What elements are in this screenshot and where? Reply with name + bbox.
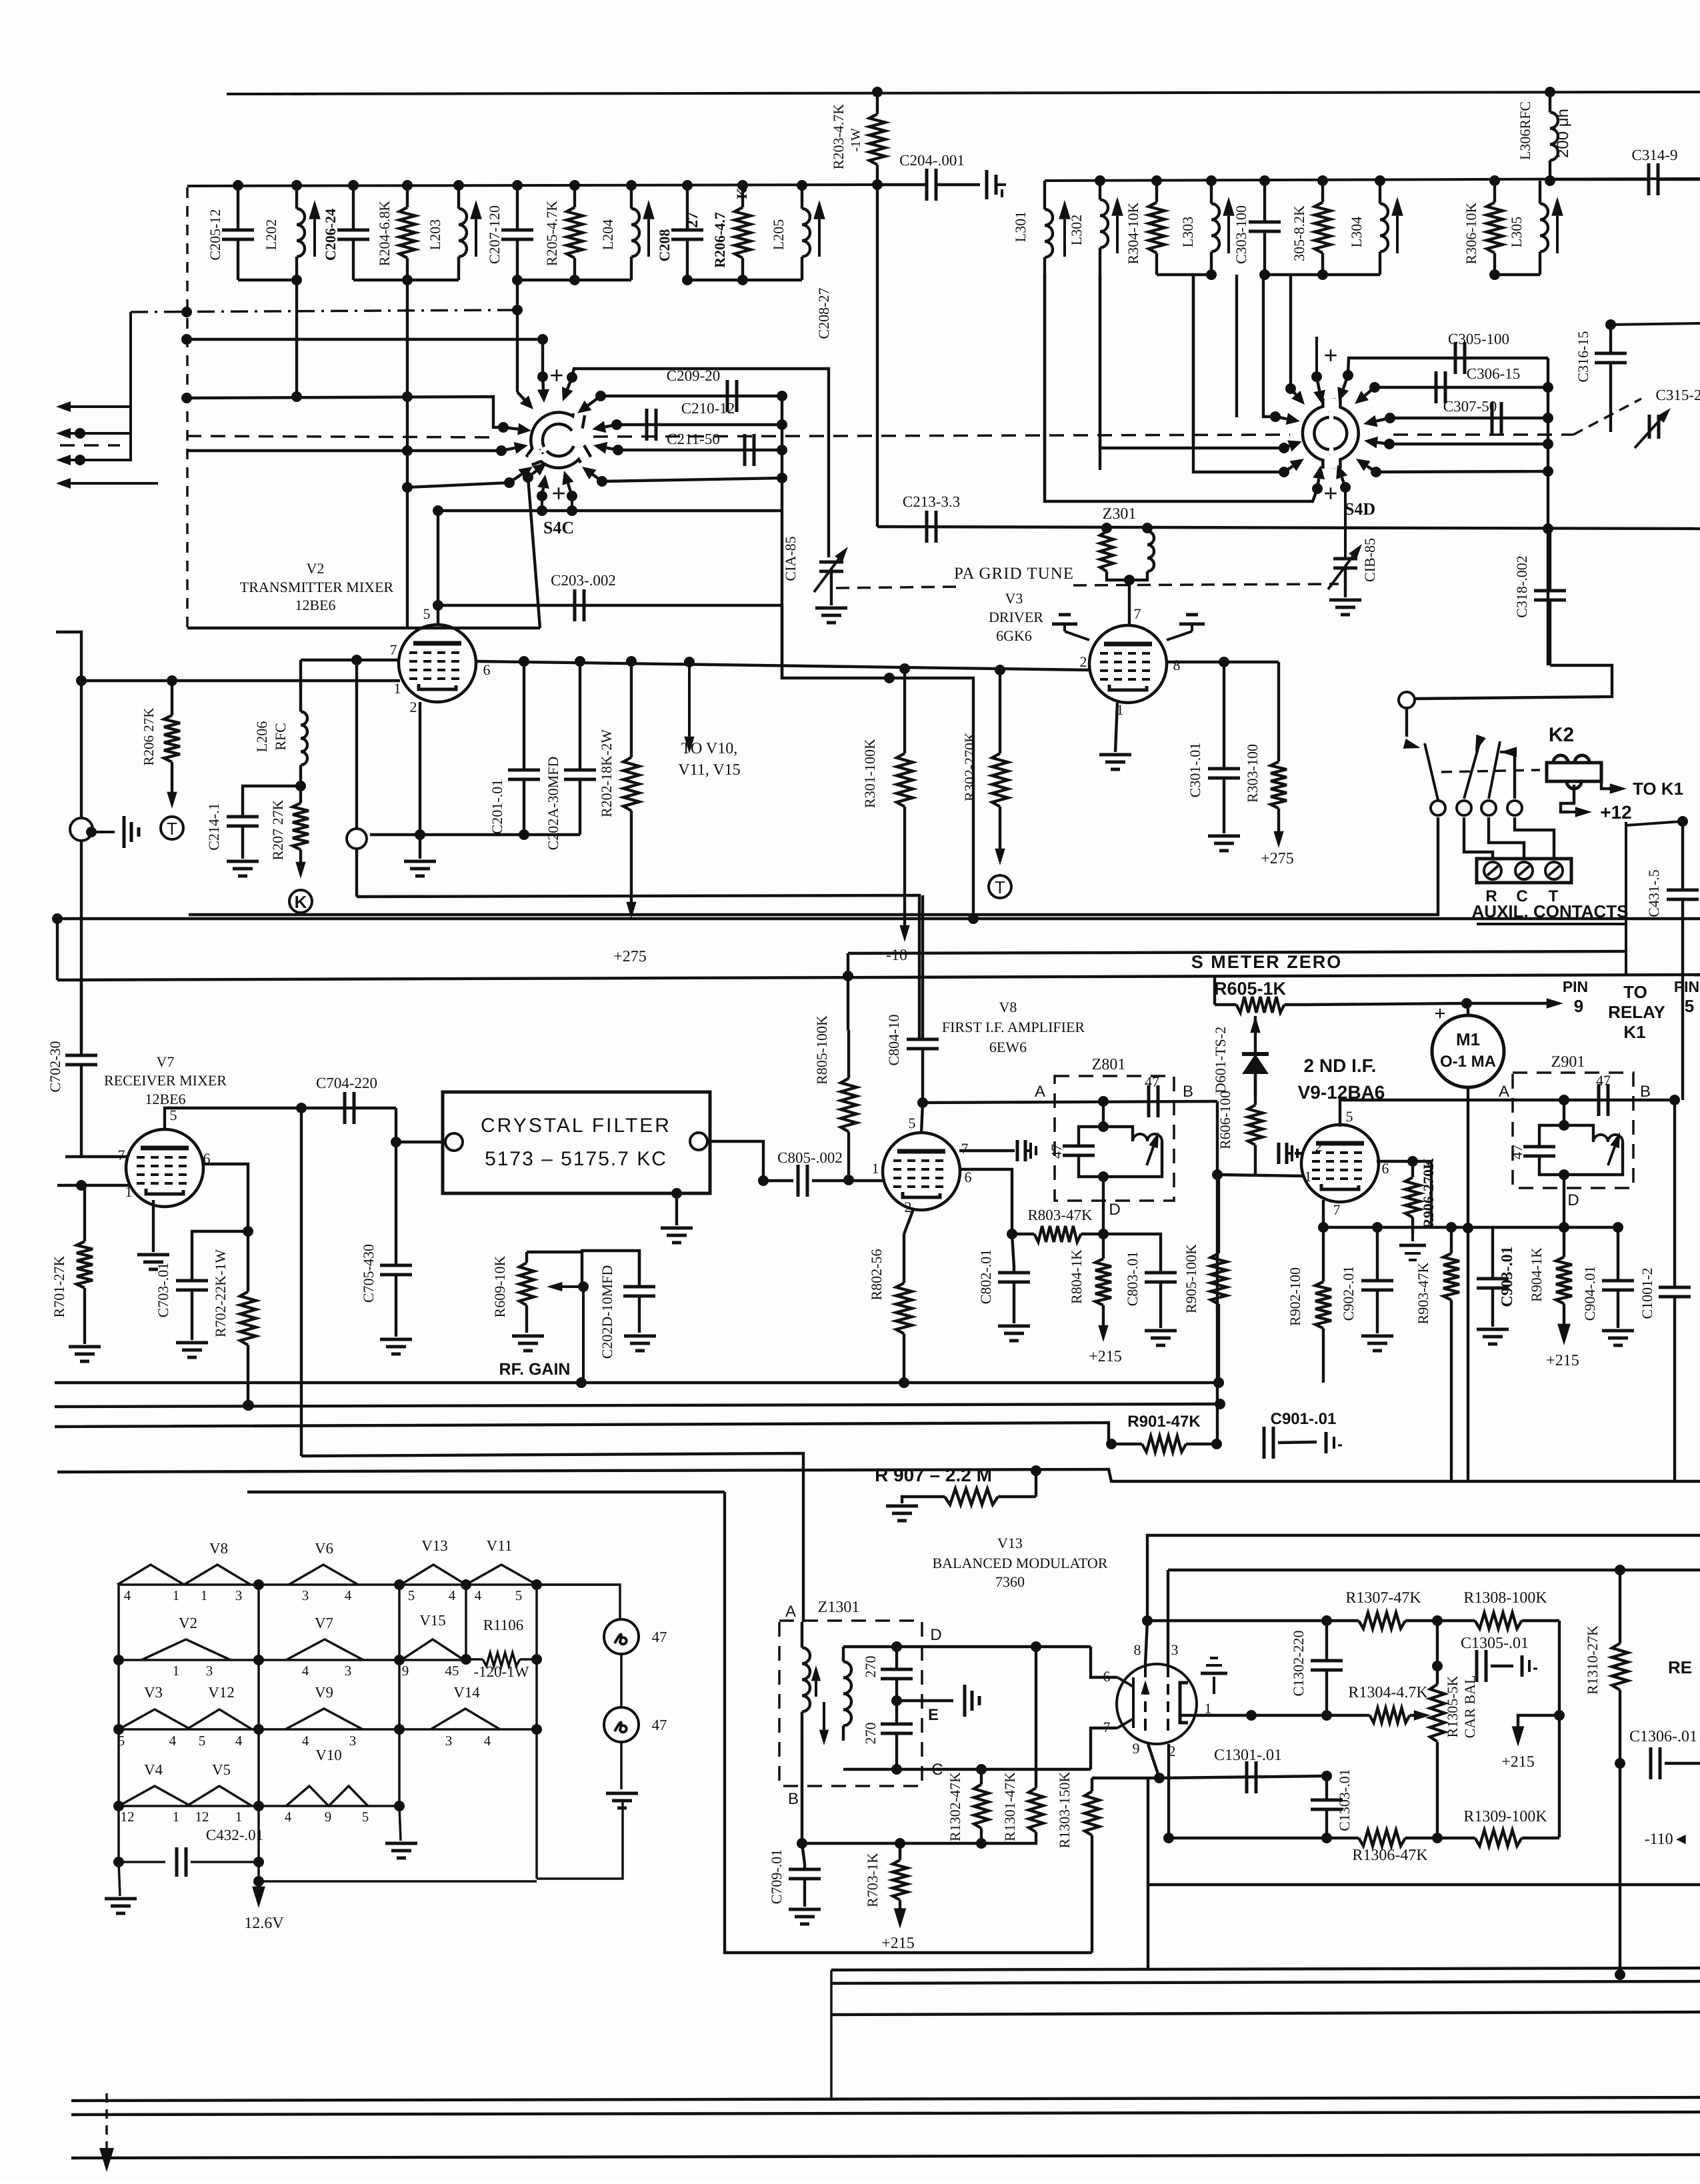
wire Z1301 secondary top [843,1645,1091,1648]
wire C203 to V3 grid [782,605,973,919]
svg-text:C431-.5: C431-.5 [1645,869,1662,917]
wire S4C left dash [512,305,523,315]
svg-text:12: 12 [195,1809,209,1825]
svg-text:6GK6: 6GK6 [996,627,1032,644]
terminal strip R C T [1477,859,1571,883]
svg-text:270: 270 [862,1723,879,1745]
wire K2 to +12 [1561,785,1574,812]
wire left edge vertical [56,919,59,980]
svg-text:L304: L304 [1348,217,1365,247]
ground CIB-85 [1344,568,1347,597]
svg-text:C804-10: C804-10 [885,1015,902,1066]
filament V12 row3 [187,1709,252,1729]
svg-text:TO: TO [1623,982,1647,1002]
filament V10 row4 double [286,1786,368,1806]
svg-text:R703-1K: R703-1K [864,1853,881,1907]
wire contact3 to C [1489,817,1524,859]
wire K2 to K1 [1601,772,1611,789]
svg-text:1: 1 [872,1160,879,1177]
svg-text:1: 1 [173,1809,180,1825]
label PIN 9 [1547,998,1563,1008]
svg-text:-1W: -1W [849,128,863,152]
resistor R803-47K [1012,1233,1035,1235]
inductor L305 [1539,181,1541,204]
capacitor C301-.01 [1223,662,1225,769]
wire S4C collector vertical [781,396,783,678]
wire heater rail x388 [257,1585,260,1881]
svg-text:R206 27K: R206 27K [141,708,157,766]
capacitor C1305-.01 [1475,1650,1479,1682]
wire mech dashed S4C to S4D [593,435,1290,437]
svg-text:3: 3 [349,1733,357,1749]
svg-text:R 907 – 2.2 M: R 907 – 2.2 M [875,1465,992,1485]
connector input pins [56,401,71,412]
resistor R1310-27K [1619,1570,1621,1643]
capacitor C432-.01 [119,1861,165,1863]
svg-text:+275: +275 [613,948,647,965]
wire tank4 bottom rail [687,279,802,281]
svg-text:1: 1 [394,680,401,697]
wire sec top to V13 pin6 [1091,1647,1117,1677]
svg-text:R306-10K: R306-10K [1463,202,1479,264]
arrow 12.6V [257,1881,260,1893]
svg-text:47: 47 [1596,1072,1611,1089]
slug arrow L203 [475,219,477,257]
wire bottom bus G1 [831,1968,1700,1970]
switch S4D rotor [1309,411,1329,455]
svg-text:+: + [1434,1003,1446,1025]
slug arrow Z901 [1608,1147,1615,1165]
resistor R206-4.7K [741,185,744,207]
wire S4D top-left feed [1315,337,1318,377]
wire V3 pin8 line [1167,661,1279,663]
slug arrow L202 [313,219,316,257]
ground heater left rail [119,1862,120,1896]
tube V3 6GK6 [1089,625,1167,703]
ground V10 return [399,1806,401,1841]
wire V2 bottom rail [370,833,580,836]
svg-text:C1301-.01: C1301-.01 [1214,1747,1282,1764]
resistor R208 27K [171,681,173,715]
inductor L304 [1379,181,1381,204]
svg-text:PIN: PIN [1563,978,1588,995]
ground C214 [227,861,259,876]
wire B node rail [802,1842,1037,1845]
svg-text:R702-22K-1W: R702-22K-1W [212,1249,229,1337]
filament V3 row3 [119,1709,191,1729]
capacitor C902-.01 [1372,1222,1383,1233]
svg-text:47: 47 [1509,1145,1525,1159]
capacitor C314-91 [1550,178,1649,181]
wire S4D to CIB [1344,487,1347,557]
svg-text:1: 1 [1305,1168,1312,1185]
svg-text:CIB-85: CIB-85 [1361,538,1378,582]
resistor R303-100 [1277,662,1280,733]
wire Z1301 primary bottom B [801,1737,803,1843]
svg-text:S METER ZERO: S METER ZERO [1191,952,1343,972]
wire C303 group bottom [1265,273,1380,276]
svg-text:C705-430: C705-430 [360,1244,377,1303]
svg-text:5: 5 [1685,996,1694,1016]
svg-text:4: 4 [302,1733,309,1749]
svg-text:C704-220: C704-220 [316,1075,377,1091]
impedance Z801 box [1055,1076,1174,1201]
wire R901 vertical to B node [1216,1175,1219,1444]
capacitor C704-220 [343,1092,347,1124]
svg-text:C1303-.01: C1303-.01 [1336,1769,1353,1831]
svg-text:5: 5 [909,1115,916,1131]
wire tank3 bottom rail [517,279,631,281]
svg-text:R1305-5K: R1305-5K [1444,1675,1461,1737]
resistor R802-56 [904,1209,913,1234]
svg-text:Z301: Z301 [1103,505,1137,523]
svg-text:C204-.001: C204-.001 [899,152,965,169]
wire Z901 A-B line [1504,1099,1675,1101]
svg-text:9: 9 [1133,1740,1140,1757]
capacitor C214-.1 [241,812,244,817]
node junction x2322 [1543,523,1553,534]
svg-text:L202: L202 [263,219,279,250]
lamp 47 no1 [604,1619,639,1654]
inductor L301 [1043,181,1046,200]
svg-text:C902-.01: C902-.01 [1340,1266,1357,1321]
svg-text:7: 7 [118,1147,125,1163]
svg-text:4: 4 [345,1587,352,1603]
svg-text:DRIVER: DRIVER [989,609,1043,625]
wire R1310 down [1619,1763,1621,1975]
svg-text:K: K [295,892,307,912]
svg-text:C209-20: C209-20 [667,367,721,384]
svg-text:5: 5 [199,1733,206,1749]
resistor R701-27K [83,1185,86,1241]
svg-text:V8: V8 [999,999,1017,1015]
filament V4 row4 [119,1786,191,1806]
wire right edge vertical A [1625,822,1627,976]
svg-text:1: 1 [173,1587,180,1603]
capacitor C703-.01 [191,1275,193,1281]
svg-text:K2: K2 [1549,724,1574,746]
wire pin1 node line [1251,1714,1365,1717]
svg-text:47: 47 [652,1629,667,1645]
wire tank bus 300-series [1045,179,1700,181]
resistor R203-4.7K-1W [876,94,879,114]
svg-text:+: + [549,361,563,389]
wire V8 pin7 bypass [959,1149,1015,1152]
wire bottom page line 2 [71,2112,1700,2115]
svg-text:R202-18K-2W: R202-18K-2W [598,729,615,817]
svg-text:C904-.01: C904-.01 [1581,1266,1598,1321]
wire V13 pin2 down [1167,1744,1170,1838]
wire R306-L305 bottom [1495,273,1540,276]
wire V7 cathode [152,1200,155,1252]
svg-text:V11: V11 [487,1537,513,1554]
svg-text:C314-9: C314-9 [1632,147,1678,163]
filament V1 row1 [117,1565,184,1585]
svg-text:V7: V7 [315,1615,333,1631]
wire C209 line [601,395,782,397]
resistor R906-270K [1411,1161,1414,1177]
svg-text:R1306-47K: R1306-47K [1352,1847,1428,1864]
slug arrow Z801 [1147,1147,1153,1165]
capacitor Z1301 270 bottom [895,1701,898,1724]
capacitor C1303-.01 [1325,1776,1328,1800]
resistor R1307-47K [1327,1619,1359,1622]
wire contact4 to T [1515,817,1554,859]
diode D601-TS-2 [1254,1016,1257,1054]
capacitor C209-20 [726,380,729,412]
svg-text:V14: V14 [453,1684,480,1701]
wire drop L303 group to S4D [1192,275,1195,444]
tube V7 12BE6 [126,1129,203,1207]
tube V13 7360 [1117,1664,1197,1744]
svg-text:S4C: S4C [543,518,574,537]
svg-text:+275: +275 [1261,850,1294,867]
svg-text:A: A [1035,1083,1045,1101]
inductor L204 [630,185,633,209]
capacitor C204-.001 [877,183,927,186]
wire C704 to filter [396,1108,445,1142]
resistor R702-22K-1W [247,1231,249,1292]
svg-text:V15: V15 [419,1612,446,1629]
svg-text:B: B [1640,1083,1651,1101]
svg-text:1: 1 [173,1663,180,1679]
resistor R805-100K [847,1030,850,1079]
capacitor C203-.002 [573,589,577,621]
wire C203 line [438,604,782,607]
svg-text:6: 6 [1103,1668,1111,1685]
svg-text:5: 5 [515,1587,523,1603]
svg-text:45: 45 [445,1663,459,1679]
wire R805 top lead [847,953,849,1030]
wire drop C303 group [1235,275,1238,417]
transformer Z1301 primary [801,1622,803,1648]
wire left vertical main [56,632,81,1050]
resistor R905-100K [1217,1175,1220,1253]
wire bus 2208 [57,1469,1700,1481]
wire Z301 plate line [877,527,1700,529]
ground C301 [1208,836,1240,851]
inductor L303 [1210,181,1213,204]
resistor R202-18K-2W [630,661,633,757]
svg-text:L301: L301 [1012,211,1029,242]
svg-text:C318-.002: C318-.002 [1513,555,1530,618]
wire 12.6V node [253,1876,264,1887]
svg-text:C315-2: C315-2 [1656,387,1700,403]
svg-text:+12: +12 [1600,802,1632,823]
capacitor C202D-10MFD [638,1251,641,1287]
contact circles K2 [1431,801,1445,815]
inductor L203 [457,185,460,209]
resistor R1304-4.7K [1365,1714,1370,1717]
ground C705 [380,1339,412,1354]
wire V9 pin5 to Z901 A [1340,1100,1504,1127]
svg-text:K1: K1 [1623,1022,1645,1042]
wire +215 branch V13 [1518,1715,1559,1728]
wire V9 cathode line [1322,1200,1325,1227]
terminal T circle V3 [989,875,1011,898]
ground R701 [69,1347,101,1361]
svg-text:C1305-.01: C1305-.01 [1461,1635,1529,1652]
svg-text:V7: V7 [157,1053,175,1070]
svg-text:L204: L204 [599,219,616,250]
wire V7 pin6 to R702 [203,1164,248,1231]
wire V13 grid bypass [1213,1677,1215,1694]
wire tank1 bottom rail [238,279,297,281]
svg-text:C205-12: C205-12 [207,209,223,261]
ground R609 [512,1336,544,1351]
impedance Z1301 box [779,1621,922,1786]
svg-text:V10: V10 [315,1747,342,1763]
svg-text:4: 4 [302,1663,309,1679]
svg-text:C303-100: C303-100 [1233,205,1249,264]
wire S4C lower right line [602,478,782,481]
resistor R1308-100K [1437,1619,1475,1622]
wire V2 pin1 line [81,679,400,682]
wire heater left rail [117,1585,120,1862]
svg-text:V3: V3 [1005,590,1023,607]
wire V9 pin2 bypass [1295,1152,1303,1155]
svg-text:R1302-47K: R1302-47K [947,1772,963,1841]
svg-text:47: 47 [652,1717,667,1733]
trimmer CIA-85 [819,561,843,564]
capacitor C303-100 [1263,181,1266,222]
capacitor trimmer stub [985,170,989,199]
svg-text:3: 3 [302,1587,309,1603]
capacitor C211-50 [743,434,747,466]
svg-text:12BE6: 12BE6 [145,1091,185,1107]
svg-text:M1: M1 [1456,1029,1480,1049]
capacitor C202A-30MFD [579,661,581,770]
svg-text:R605-1K: R605-1K [1214,979,1287,999]
wire V7 pin7 line [65,1155,127,1158]
wire heater row3 [119,1728,537,1731]
wire C316 feed [1611,323,1700,325]
svg-text:C805-.002: C805-.002 [777,1149,843,1166]
svg-text:+215: +215 [1546,1352,1579,1369]
wire V8 feed line [357,895,919,1039]
switch K2 arm 4 [1513,752,1516,799]
wire R1308 right drop [1558,1621,1561,1837]
svg-text:S4D: S4D [1345,499,1375,519]
svg-text:5173 – 5175.7 KC: 5173 – 5175.7 KC [485,1148,667,1170]
svg-text:TO K1: TO K1 [1633,779,1683,799]
svg-text:R301-100K: R301-100K [861,739,878,808]
impedance Z901 tank [1563,1100,1565,1125]
capacitor C208-27 [686,185,689,230]
wire Z901 D lead [1563,1175,1565,1227]
filament V11 row1 [466,1565,537,1585]
capacitor C201-.01 [523,661,525,770]
wire V2 pin2 ground [419,702,421,835]
svg-text:TO V10,: TO V10, [681,740,737,757]
wire V13 pin3 up [1167,1570,1169,1664]
wire heater return loop [537,1800,623,1879]
svg-text:7: 7 [1103,1719,1111,1735]
capacitor C205-12 [237,185,239,230]
svg-text:R302-270K: R302-270K [961,732,978,801]
wire heater rail x599 [398,1585,401,1806]
impedance Z801 tank [1102,1101,1105,1127]
svg-text:C306-15: C306-15 [1467,365,1521,382]
svg-text:Z901: Z901 [1551,1053,1585,1071]
inductor L306 RFC 200uh [1549,92,1551,113]
svg-text:1: 1 [201,1587,208,1603]
svg-text:RECEIVER MIXER: RECEIVER MIXER [104,1072,227,1089]
wire heater row4 [119,1805,399,1807]
resistor R305-8.2K [1321,181,1324,203]
svg-text:C208: C208 [656,229,673,262]
wire heater row1 [119,1583,620,1586]
ground C202D [624,1336,656,1351]
capacitor C903-.01 [1491,1227,1494,1279]
svg-text:O-1 MA: O-1 MA [1440,1053,1496,1071]
wire C210 line [617,423,782,426]
wire S4C left line1 [187,397,500,427]
wire contact1 long tail [189,817,1438,915]
svg-text:R904-1K: R904-1K [1528,1247,1545,1302]
resistor R1306-47K [1327,1837,1359,1839]
svg-text:V5: V5 [212,1761,231,1778]
capacitor C705-430 [395,1260,397,1265]
capacitor C431-.5 [1681,821,1684,890]
wire left dashed vertical boundary [186,187,189,628]
svg-text:2: 2 [1315,1138,1323,1155]
potentiometer R1305-5K CAR BAL [1436,1621,1439,1666]
wire AVC bus 1 [57,917,1700,920]
inductor L302 [1099,181,1101,200]
svg-text:9: 9 [402,1663,409,1679]
resistor R901-47K [1106,1439,1117,1449]
resistor R1303-150K [1091,1778,1093,1791]
capacitor C305-100 [1454,342,1457,374]
svg-text:D601-TS-2: D601-TS-2 [1212,1027,1229,1093]
wire M1 bottom lead [1467,1087,1469,1481]
wire G links [830,1970,833,2101]
resistor R902-100 [1322,1227,1325,1282]
svg-text:R903-47K: R903-47K [1415,1262,1431,1324]
resistor R205-4.7K [573,185,576,207]
svg-text:B: B [1183,1083,1193,1101]
wire heater rail x699 [465,1585,467,1660]
svg-text:+215: +215 [1089,1348,1122,1365]
wire V7 pin5 to C704 [165,1108,396,1130]
wire R304-L303 bottom [1157,273,1211,276]
wire connector vertical solid [129,312,132,461]
svg-text:3: 3 [345,1663,352,1679]
wire R1307 line [1147,1619,1327,1622]
svg-text:C1302-220: C1302-220 [1290,1631,1307,1697]
capacitor C316-15 [1609,325,1612,353]
svg-text:3: 3 [206,1663,213,1679]
wire R203 junction vertical [876,185,879,527]
svg-text:1: 1 [235,1809,243,1825]
filament V6 row1 [289,1565,358,1585]
svg-text:C203-.002: C203-.002 [551,572,616,589]
switch K2 arm 1 [1405,708,1408,737]
svg-text:R304-10K: R304-10K [1125,202,1141,264]
svg-text:4: 4 [235,1733,243,1749]
filament V9 row3 [285,1709,363,1729]
wire V8 pin6 to R803 [959,1169,1012,1234]
svg-text:R205-4.7K: R205-4.7K [543,201,560,267]
wire S METER ZERO bus [57,975,1700,980]
svg-text:8: 8 [1134,1641,1141,1658]
svg-text:C207-120: C207-120 [486,205,503,264]
svg-text:V9: V9 [315,1684,333,1701]
svg-text:V3: V3 [144,1684,163,1701]
resistor R703-1K [899,1843,901,1860]
svg-text:4: 4 [475,1587,482,1603]
